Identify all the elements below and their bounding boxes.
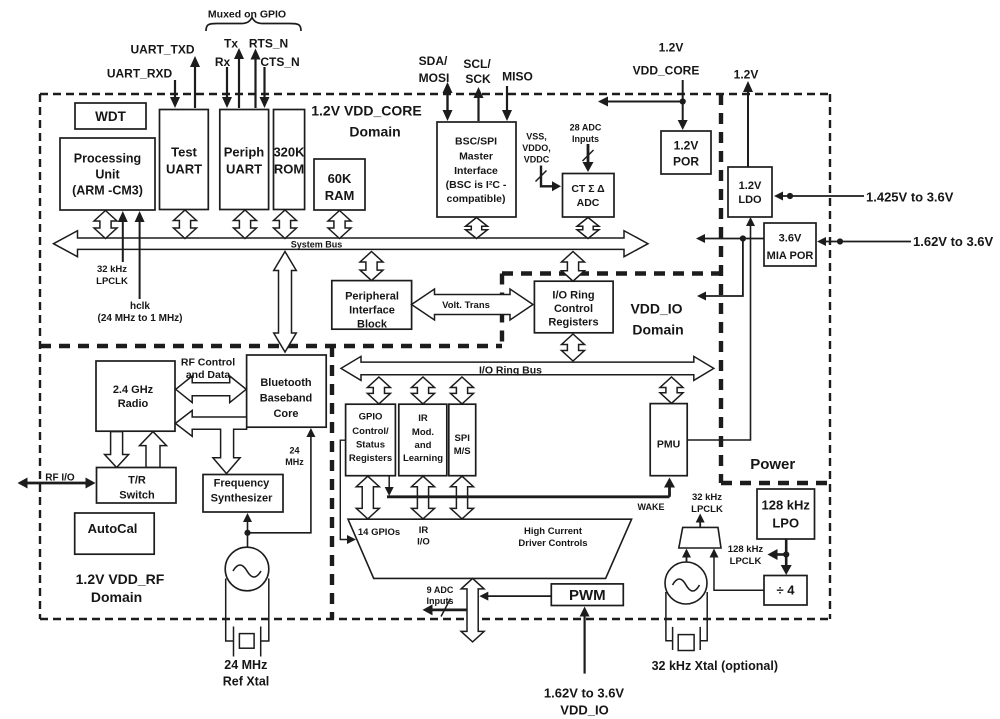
svg-text:LPCLK: LPCLK: [96, 276, 128, 287]
svg-text:Control: Control: [554, 303, 593, 315]
wire WAKE from GPIO to PMU: [388, 476, 390, 489]
block 1.2V POR: [661, 131, 711, 174]
svg-text:ADC: ADC: [577, 197, 600, 209]
wire 9 ADC inputs out: [430, 609, 467, 612]
svg-text:I/O Ring Bus: I/O Ring Bus: [479, 364, 542, 376]
pin arrow UART_TXD: [194, 65, 196, 108]
svg-text:WAKE: WAKE: [638, 502, 665, 512]
svg-text:RF I/O: RF I/O: [45, 473, 75, 484]
bus connector I/O Ring Bus to IR block: [412, 377, 435, 404]
wire PWM to pad ring arrow: [487, 595, 551, 597]
oscillator 32 kHz circle: [665, 562, 707, 604]
svg-text:VSS,: VSS,: [526, 132, 547, 142]
bus connector 60K RAM to System Bus: [328, 211, 351, 239]
svg-text:IR: IR: [418, 413, 428, 424]
svg-text:320K: 320K: [273, 145, 305, 160]
svg-text:GPIO: GPIO: [359, 412, 383, 423]
bus connector Processing Unit to System Bus: [94, 211, 117, 239]
svg-text:Bluetooth: Bluetooth: [260, 377, 312, 389]
wire VSS/VDDO/VDDC into ADC: [540, 166, 542, 188]
wire GPIO registers to pad ring control (left): [340, 440, 348, 539]
svg-text:MISO: MISO: [502, 69, 533, 83]
svg-text:Status: Status: [356, 439, 385, 450]
bus-width slash on 9 ADC wire: [441, 599, 451, 617]
block Processing Unit (ARM-CM3): [60, 138, 155, 210]
crystal 32 kHz Xtal symbol: [666, 592, 707, 651]
bus connector T/R switch up to Radio: [140, 432, 167, 468]
svg-text:hclk: hclk: [130, 301, 150, 312]
Power domain dashed boundary (thick): [721, 94, 830, 483]
svg-text:(24 MHz to 1 MHz): (24 MHz to 1 MHz): [98, 313, 183, 324]
svg-text:1.2V: 1.2V: [739, 180, 762, 192]
wire 1.62V input to MIA POR: [823, 241, 911, 243]
junction dot 24 MHz oscillator node: [244, 530, 250, 536]
svg-text:128 kHz: 128 kHz: [728, 544, 764, 555]
svg-text:PWM: PWM: [569, 587, 606, 604]
svg-text:MHz: MHz: [285, 457, 304, 467]
svg-text:Control/: Control/: [352, 426, 389, 437]
block PMU: [650, 404, 687, 476]
pin arrow Rx: [226, 67, 228, 99]
svg-text:Interface: Interface: [454, 165, 498, 177]
svg-text:1.62V to 3.6V: 1.62V to 3.6V: [544, 686, 625, 701]
wire VDD_CORE supply down to 1.2V POR: [682, 80, 684, 123]
svg-text:Block: Block: [357, 319, 388, 331]
wire LPO down to divide-by-4: [785, 539, 788, 569]
svg-text:POR: POR: [673, 154, 699, 168]
pin arrow MISO: [506, 86, 508, 112]
svg-text:(ARM -CM3): (ARM -CM3): [72, 184, 143, 198]
svg-text:1.425V to 3.6V: 1.425V to 3.6V: [866, 190, 954, 205]
bus connector Test UART to System Bus: [174, 210, 197, 239]
block 2.4 GHz Radio: [96, 361, 175, 431]
block 60K RAM: [314, 159, 365, 210]
svg-text:compatible): compatible): [447, 193, 506, 205]
bus System Bus: [54, 231, 649, 257]
svg-text:SPI: SPI: [455, 433, 470, 444]
svg-text:32 kHz Xtal (optional): 32 kHz Xtal (optional): [652, 659, 778, 673]
svg-text:÷ 4: ÷ 4: [777, 583, 796, 598]
VDD_RF domain dashed boundary (thick): [40, 346, 502, 619]
svg-text:Interface: Interface: [349, 305, 395, 317]
wire oscillator into buffer: [686, 553, 688, 562]
svg-text:VDDO,: VDDO,: [522, 143, 551, 153]
svg-text:Processing: Processing: [74, 152, 141, 166]
svg-text:LPCLK: LPCLK: [691, 504, 723, 515]
pin arrow SCL/SCK: [477, 96, 479, 121]
svg-text:24 MHz: 24 MHz: [224, 658, 267, 672]
svg-text:24: 24: [289, 446, 299, 456]
svg-text:2.4 GHz: 2.4 GHz: [113, 384, 154, 396]
svg-text:MOSI: MOSI: [419, 71, 450, 85]
wire PMU to LDO: [687, 222, 750, 440]
svg-text:SDA/: SDA/: [419, 54, 448, 68]
svg-text:1.2V: 1.2V: [674, 138, 699, 152]
svg-text:Domain: Domain: [91, 589, 142, 605]
svg-text:I/O Ring: I/O Ring: [552, 290, 594, 302]
svg-text:VDD_CORE: VDD_CORE: [633, 63, 700, 77]
bus connector I/O Ring Registers to System Bus: [562, 252, 585, 282]
svg-text:9 ADC: 9 ADC: [427, 585, 454, 595]
junction dot on LPO output: [783, 551, 789, 557]
svg-text:1.2V VDD_RF: 1.2V VDD_RF: [76, 571, 165, 587]
svg-text:SCK: SCK: [465, 72, 491, 86]
svg-text:ROM: ROM: [274, 162, 304, 177]
wire 28 ADC inputs into ADC: [587, 144, 590, 164]
svg-text:WDT: WDT: [95, 109, 126, 124]
svg-text:RTS_N: RTS_N: [249, 36, 288, 50]
svg-text:UART: UART: [226, 162, 262, 177]
wire divide-by-4 output into buffer: [714, 554, 764, 590]
svg-text:System Bus: System Bus: [291, 240, 343, 250]
block GPIO Control/Status Registers: [346, 404, 396, 476]
block Peripheral Interface Block: [332, 281, 412, 330]
svg-text:Frequency: Frequency: [214, 478, 271, 490]
svg-text:UART_TXD: UART_TXD: [130, 42, 194, 56]
junction dot on 1.425V wire: [787, 193, 793, 199]
svg-text:CTS_N: CTS_N: [260, 55, 299, 69]
svg-text:Synthesizer: Synthesizer: [211, 493, 273, 505]
svg-text:CT Σ Δ: CT Σ Δ: [571, 183, 605, 195]
block Periph UART: [220, 110, 269, 210]
block T/R Switch: [97, 468, 177, 504]
wire VDD_CORE branch into core domain: [606, 101, 683, 103]
svg-text:Learning: Learning: [403, 453, 443, 464]
svg-text:T/R: T/R: [128, 475, 146, 487]
svg-text:UART_RXD: UART_RXD: [107, 66, 173, 80]
svg-text:32 kHz: 32 kHz: [692, 492, 722, 503]
svg-text:(BSC is I²C -: (BSC is I²C -: [446, 179, 507, 191]
wire 24 MHz oscillator to Baseband: [248, 433, 311, 533]
bus connector I/O Ring Bus to SPI block: [451, 377, 474, 404]
wire 32 kHz LPCLK up from buffer: [699, 521, 701, 528]
block WDT: [75, 103, 146, 129]
bus connector Radio down to T/R switch: [105, 432, 129, 468]
svg-text:128 kHz: 128 kHz: [761, 498, 810, 513]
svg-text:Baseband: Baseband: [260, 393, 313, 405]
svg-text:Peripheral: Peripheral: [345, 291, 399, 303]
block IR Mod. and Learning: [399, 404, 447, 476]
svg-text:RAM: RAM: [325, 188, 355, 203]
pin arrow RTS_N: [254, 58, 256, 109]
svg-text:I/O: I/O: [417, 536, 430, 547]
svg-text:Power: Power: [750, 456, 795, 473]
VDD_IO domain dashed boundary (thick): [502, 274, 721, 347]
svg-text:Periph: Periph: [224, 145, 265, 160]
svg-text:Driver Controls: Driver Controls: [518, 538, 587, 549]
svg-text:Ref Xtal: Ref Xtal: [223, 675, 270, 689]
block Frequency Synthesizer: [203, 475, 283, 513]
block Bluetooth Baseband Core: [247, 355, 327, 427]
svg-text:VDD_IO: VDD_IO: [560, 703, 608, 718]
svg-text:SCL/: SCL/: [463, 57, 491, 71]
svg-text:Tx: Tx: [224, 36, 238, 50]
wire 1.425V input to LDO: [781, 195, 864, 197]
svg-text:LDO: LDO: [738, 194, 762, 206]
svg-text:Test: Test: [171, 145, 197, 160]
junction dot on VDD_CORE wire: [680, 98, 686, 104]
svg-text:and: and: [415, 440, 432, 451]
bus connector Radio to Baseband bidirectional: [176, 376, 247, 403]
svg-text:1.2V: 1.2V: [734, 67, 759, 81]
block 3.6V MIA POR: [764, 223, 816, 266]
buffer trapezoid 32 kHz mux: [679, 527, 721, 548]
block PWM: [551, 584, 623, 606]
wire LDO output 1.2V up: [747, 90, 749, 167]
svg-text:1.2V: 1.2V: [659, 40, 684, 54]
svg-text:IR: IR: [419, 525, 429, 536]
svg-text:Inputs: Inputs: [572, 134, 599, 144]
pin arrow CTS_N: [263, 67, 265, 99]
block CT Sigma Delta ADC: [563, 174, 615, 218]
wire hclk into Processing Unit: [139, 220, 141, 299]
pin arrow SDA/MOSI bidirectional: [446, 91, 448, 112]
bus I/O Ring Bus: [341, 356, 714, 380]
svg-text:60K: 60K: [328, 171, 352, 186]
wire VDD_IO supply up to PWM: [583, 612, 585, 674]
block 1.2V LDO: [728, 167, 772, 217]
block 128 kHz LPO: [757, 489, 815, 539]
svg-text:VDD_IO: VDD_IO: [630, 301, 682, 317]
bus connector System Bus down to RF domain: [274, 252, 297, 353]
svg-text:Radio: Radio: [118, 398, 149, 410]
bus connector Periph UART to System Bus: [234, 210, 257, 239]
svg-text:Volt. Trans: Volt. Trans: [442, 300, 490, 311]
pin arrow Tx: [238, 57, 240, 108]
svg-text:BSC/SPI: BSC/SPI: [455, 136, 497, 148]
svg-text:Domain: Domain: [349, 124, 400, 140]
svg-text:1.2V VDD_CORE: 1.2V VDD_CORE: [311, 103, 421, 119]
wire MIA POR output into core domain: [703, 238, 764, 240]
bus connector IR block to pad ring: [412, 476, 435, 519]
bus connector BSC/SPI to System Bus: [466, 218, 488, 239]
bus connector SPI block to pad ring: [451, 476, 474, 519]
junction dot on MIA POR wire: [740, 235, 746, 241]
domain box 1.2V VDD_CORE outer dashed boundary: [40, 94, 830, 619]
svg-text:Muxed on GPIO: Muxed on GPIO: [208, 8, 286, 20]
wire oscillator to Frequency Synthesizer: [247, 518, 249, 548]
svg-text:Switch: Switch: [119, 490, 155, 502]
bus connector Baseband to Radio and Frequency Synthesizer (branched hollow arrow): [175, 410, 246, 473]
block AutoCal: [75, 513, 155, 554]
oscillator 24 MHz circle: [225, 547, 269, 591]
wire RF I/O bidirectional: [26, 482, 88, 485]
block 320K ROM: [274, 110, 305, 210]
block divide-by-4: [764, 576, 807, 606]
wire 32 kHz LPCLK into Processing Unit: [122, 220, 124, 262]
svg-text:M/S: M/S: [454, 446, 471, 457]
svg-text:3.6V: 3.6V: [779, 233, 802, 245]
svg-text:Registers: Registers: [349, 453, 392, 464]
brace over muxed pins: [206, 18, 301, 32]
bus-width slash on VSS wire: [536, 171, 547, 182]
bus connector Peripheral Interface Block to System Bus: [360, 252, 383, 281]
svg-text:AutoCal: AutoCal: [88, 521, 138, 536]
bus connector pad ring to external I/O: [461, 578, 484, 642]
svg-text:LPCLK: LPCLK: [730, 556, 762, 567]
wire MIA POR branch down into IO domain: [704, 239, 743, 297]
svg-text:UART: UART: [166, 162, 202, 177]
block I/O Ring Control Registers: [534, 281, 613, 333]
svg-text:LPO: LPO: [772, 516, 799, 531]
junction dot on 1.62V wire: [837, 238, 843, 244]
crystal 24 MHz Ref Xtal symbol: [226, 579, 269, 657]
bus-width slash on ADC wire: [583, 150, 594, 161]
bus connector Volt. Trans between PIB and I/O Ring Registers: [412, 289, 534, 320]
pin arrow UART_RXD: [174, 80, 176, 99]
pad ring trapezoid with high current drivers: [348, 519, 632, 578]
svg-text:32 kHz: 32 kHz: [97, 264, 127, 275]
bus connector I/O Ring Bus to GPIO registers: [367, 377, 390, 404]
svg-text:VDDC: VDDC: [524, 155, 550, 165]
bus connector I/O Ring Registers to I/O Ring Bus: [562, 334, 585, 361]
svg-text:Rx: Rx: [215, 55, 231, 69]
svg-text:28 ADC: 28 ADC: [570, 123, 602, 133]
bus connector 320K ROM to System Bus: [274, 210, 297, 239]
block SPI M/S: [449, 404, 476, 476]
wire 128 kHz LPCLK branch left: [774, 553, 786, 556]
svg-text:Master: Master: [459, 150, 493, 162]
svg-text:Domain: Domain: [632, 322, 683, 338]
svg-text:High Current: High Current: [524, 526, 583, 537]
block Test UART: [160, 110, 209, 210]
svg-text:Registers: Registers: [548, 317, 598, 329]
svg-text:Mod.: Mod.: [412, 427, 434, 438]
bus connector I/O Ring Bus to PMU: [660, 377, 683, 403]
svg-text:Core: Core: [273, 408, 298, 420]
svg-text:14 GPIOs: 14 GPIOs: [358, 527, 400, 538]
svg-text:1.62V to 3.6V: 1.62V to 3.6V: [913, 234, 994, 249]
bus connector GPIO registers to pad ring: [356, 476, 379, 519]
svg-text:MIA POR: MIA POR: [767, 250, 814, 262]
bus connector ADC to System Bus: [577, 218, 599, 239]
svg-text:PMU: PMU: [657, 438, 680, 450]
block BSC/SPI Master Interface: [437, 122, 516, 217]
svg-text:Unit: Unit: [95, 168, 120, 182]
svg-text:RF Control: RF Control: [181, 356, 235, 368]
